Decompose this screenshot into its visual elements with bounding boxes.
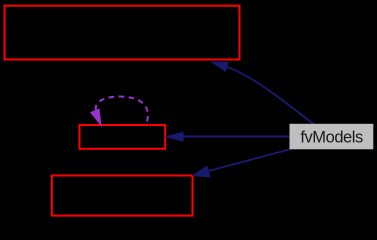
- node U: fvModels (current node, grey): [290, 124, 373, 149]
- wire: fvModels -> middle box (navy horizontal): [183, 136, 290, 138]
- arrowhead into middle box: [166, 132, 183, 141]
- svg-text:fvModels: fvModels: [300, 129, 363, 147]
- wire: fvModels -> bottom box (navy diagonal): [209, 149, 292, 171]
- arrowhead into top box: [212, 62, 229, 71]
- arrowhead of self-loop: [91, 109, 101, 125]
- node: bottom class box (truncated, label hidden): [52, 176, 193, 216]
- node: top class box (truncated, label hidden): [5, 6, 240, 60]
- wire: fvModels -> top box (navy spline): [227, 67, 314, 125]
- wire: middle box self-loop (dashed darkorchid): [96, 97, 148, 124]
- node: middle class box (truncated, label hidden): [80, 125, 166, 149]
- arrowhead into bottom box: [193, 166, 210, 177]
